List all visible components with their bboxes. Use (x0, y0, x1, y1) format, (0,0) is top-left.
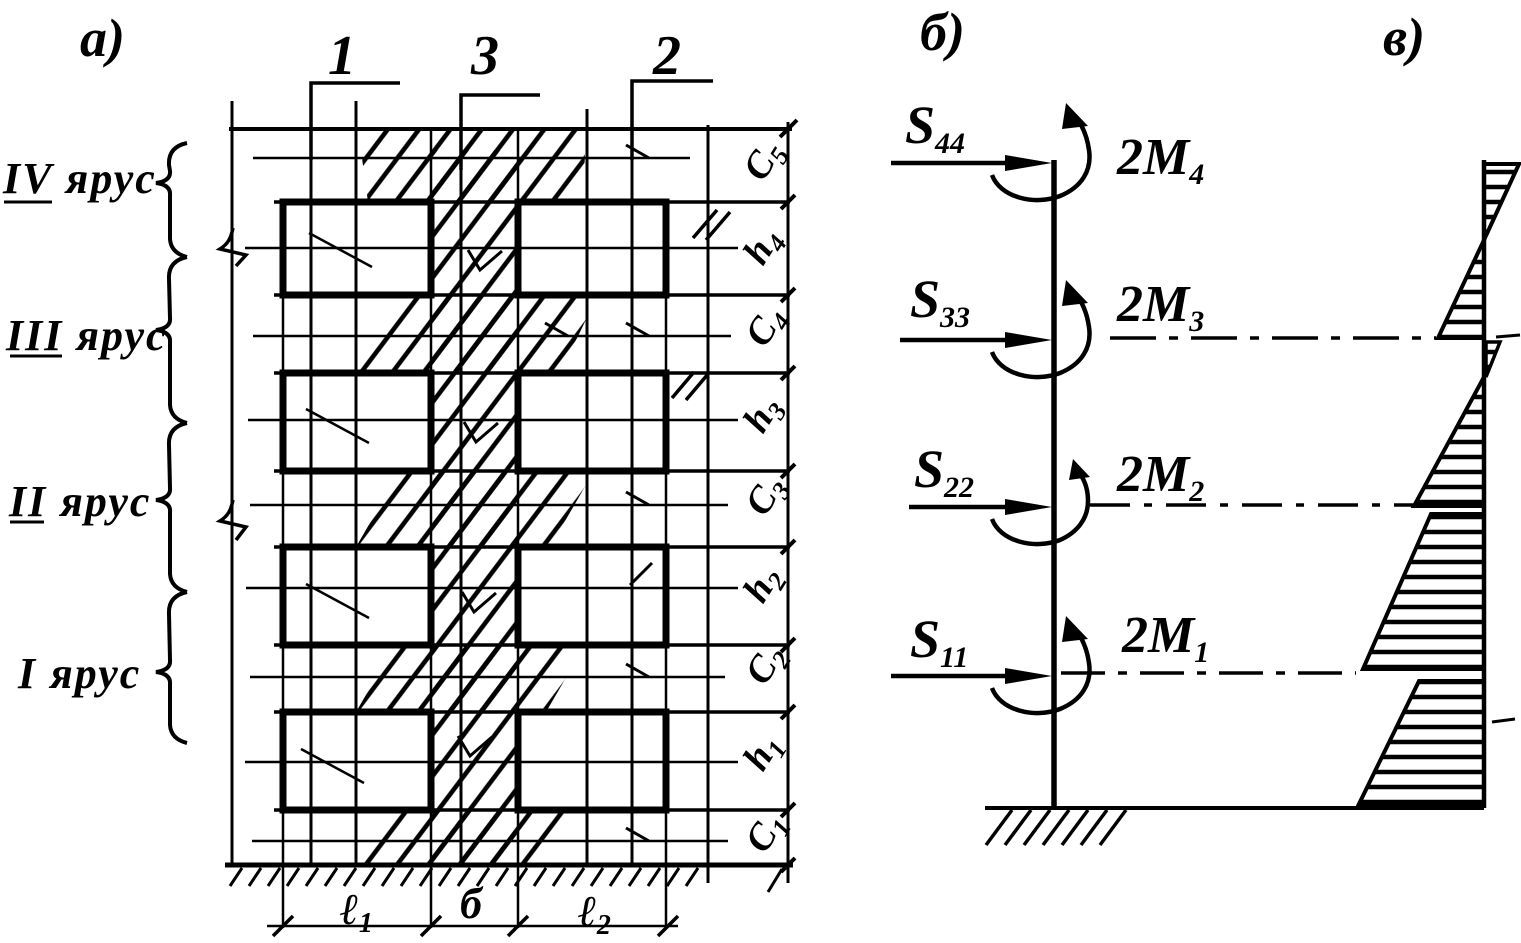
vertical axis line at x=461 (460, 95, 463, 865)
hatched strip: spandrel band C2 (356, 645, 585, 712)
diagonal mark inside window II left (306, 584, 369, 618)
tier label III ярус (5, 311, 168, 360)
break mark on left edge lower (220, 500, 246, 540)
window IV right (518, 202, 666, 295)
column of part б (1051, 160, 1057, 808)
wall top line (229, 127, 792, 131)
window edge vertical x=431 (430, 129, 433, 928)
band boundary y=645 (274, 643, 790, 647)
moment arrowhead 2M3 (1062, 280, 1088, 306)
svg-text:3: 3 (470, 25, 499, 87)
moment diagram storey1 trapezoid (1358, 681, 1484, 806)
window IV left (283, 202, 431, 295)
moment diagram storey2 trapezoid (1363, 514, 1484, 669)
svg-text:б: б (460, 879, 484, 928)
moment diagram storey3 right sliver (1486, 342, 1500, 377)
check mark at pier h3 axis (464, 422, 498, 442)
moment diagram storey4 left triangle (1438, 240, 1484, 338)
moment arc 2M3 (992, 292, 1090, 377)
force line S44 (891, 161, 1020, 166)
dash stub right of baseline lower (1492, 719, 1515, 722)
arrowhead S22 (1005, 499, 1052, 515)
dimension tick at y=471 (781, 464, 795, 478)
dimension tick top-right corner (780, 120, 797, 137)
hatched strip: top spandrel band C5 (358, 129, 586, 202)
window edge vertical x=666 (665, 200, 668, 928)
check mark at pier h4 axis (468, 250, 502, 270)
dimension tick at x=666 (658, 916, 678, 936)
dimension tick at y=202 (781, 195, 795, 209)
dash stub right of baseline at S33 level (1496, 335, 1520, 337)
arrow flick on C4 axis (626, 323, 649, 336)
brace tier IV (156, 143, 187, 257)
leader line for 1 (311, 83, 400, 160)
window II right (518, 547, 666, 645)
vertical axis line at x=587 (586, 109, 589, 865)
arrowhead S44 (1005, 155, 1052, 171)
arrow flick on C5 axis (626, 145, 649, 158)
diagonal mark inside window III left (306, 409, 369, 443)
ground line under column (985, 806, 1484, 810)
band boundary y=712 (274, 710, 790, 714)
storey axis line h1 (245, 761, 738, 764)
arrow flick on C3 axis (626, 492, 649, 505)
svg-text:a): a) (80, 8, 125, 68)
moment diagram storey3 left triangle (1414, 377, 1484, 506)
break zigzag at h3 right (672, 372, 708, 400)
leader line for 2 (632, 81, 713, 160)
bottom dimension line (267, 925, 678, 928)
dimension tick at y=373 (781, 366, 795, 380)
dimension tick at y=865 (781, 858, 795, 872)
diagonal mark inside window I left (301, 749, 364, 783)
moment arrowhead 2M4 (1062, 103, 1088, 129)
svg-text:IV ярус: IV ярус (2, 154, 157, 203)
dimension tick at x=518 (508, 916, 528, 936)
svg-text:б): б) (920, 2, 965, 62)
ground line of wall (225, 863, 793, 868)
window III left (283, 373, 431, 471)
arrowhead S33 (1005, 332, 1052, 348)
tier label IV ярус (2, 154, 157, 203)
moment diagram baseline (1482, 160, 1487, 808)
svg-text:I ярус: I ярус (17, 649, 141, 698)
hatched strip: spandrel band C1 (356, 810, 573, 865)
moment arc 2M2 (992, 474, 1088, 544)
ground hatching of wall (230, 868, 782, 892)
brace tier I (156, 592, 187, 743)
tier label II ярус (8, 477, 151, 526)
svg-text:1: 1 (328, 25, 356, 87)
break mark on left edge upper (220, 228, 246, 266)
storey axis line h4 (245, 247, 738, 250)
window edge vertical x=518 (517, 129, 520, 928)
arrowhead S11 (1005, 668, 1052, 684)
dashed level line S22 (1090, 503, 1418, 507)
window III right (518, 373, 666, 471)
floor axis line C1 (252, 840, 728, 843)
storey axis line h2 (246, 587, 738, 590)
floor axis line C4 (253, 335, 731, 338)
wall left edge vertical (231, 101, 234, 865)
break zigzag at h4 right (693, 210, 730, 240)
band boundary y=471 (274, 469, 790, 473)
diagonal mark inside window IV left (309, 233, 372, 267)
moment arc 2M1 (992, 628, 1090, 713)
dashed level line S33 (1110, 336, 1436, 340)
dimension tick at y=645 (781, 638, 795, 652)
window II left (283, 547, 431, 645)
window I left (283, 712, 431, 810)
dimension tick at y=810 (781, 803, 795, 817)
brace tier III (156, 257, 187, 423)
svg-text:2: 2 (652, 25, 681, 87)
leader line for 3 (461, 95, 540, 170)
vertical axis line at x=632 (631, 81, 634, 865)
vertical axis line at x=356 (355, 101, 358, 865)
force line S22 (909, 505, 1020, 510)
dimension tick at x=283 (273, 916, 293, 936)
window I right (518, 712, 666, 810)
dashed level line S11 (1061, 671, 1356, 675)
ground hatching under column (986, 810, 1126, 845)
check mark at pier h2 axis (462, 592, 496, 612)
dimension tick at y=547 (781, 540, 795, 554)
dimension tick at y=712 (781, 705, 795, 719)
moment arc 2M4 (992, 115, 1090, 200)
force line S11 (891, 674, 1020, 679)
svg-text:III ярус: III ярус (5, 311, 168, 360)
vertical axis line at x=311 (310, 83, 313, 865)
storey axis line h3 (248, 419, 738, 422)
floor axis line C2 (250, 676, 725, 679)
moment arrowhead 2M2 (1069, 459, 1090, 480)
floor axis line C5 (253, 157, 690, 160)
force line S33 (900, 338, 1020, 343)
arrow flick 2 on C4 axis (545, 323, 568, 336)
hatched strip: spandrel band C3 (356, 471, 594, 547)
arrow flick on C1 axis (626, 828, 649, 841)
floor axis line C3 (250, 504, 728, 507)
wall right edge vertical (707, 125, 710, 883)
band boundary y=547 (274, 545, 790, 549)
hatched strip: central pier (431, 150, 518, 865)
moment arrowhead 2M1 (1062, 616, 1088, 642)
dimension tick at y=295 (781, 288, 795, 302)
band boundary y=373 (274, 371, 790, 375)
band boundary y=295 (274, 293, 790, 297)
check mark at pier h1 axis (458, 736, 492, 756)
moment diagram storey4 right triangle (1484, 164, 1519, 240)
break flick at h2 right (630, 563, 652, 585)
dimension tick at x=431 (421, 916, 441, 936)
svg-text:в): в) (1383, 7, 1425, 67)
svg-text:II ярус: II ярус (8, 477, 151, 526)
outer dimension column vertical (787, 122, 790, 883)
hatched strip: spandrel band C4 (356, 295, 598, 373)
band boundary y=202 (274, 200, 790, 204)
band boundary y=810 (274, 808, 790, 812)
window edge vertical x=283 (282, 200, 285, 928)
brace tier II (156, 423, 187, 592)
arrow flick on C2 axis (626, 664, 649, 677)
